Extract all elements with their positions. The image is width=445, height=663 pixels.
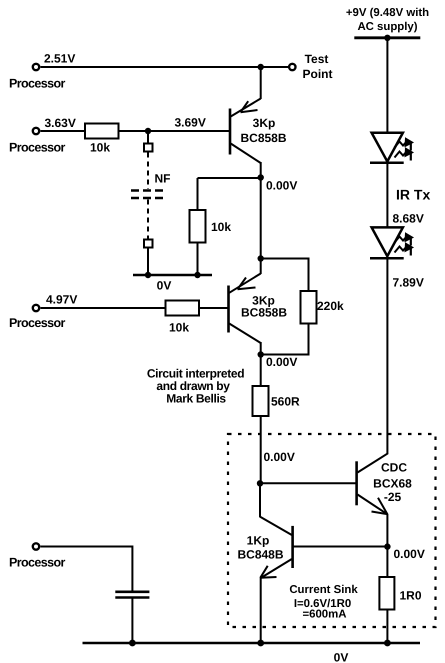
NF pad square (upper) [144,144,153,152]
svg-text:1Kp: 1Kp [247,534,270,548]
svg-text:7.89V: 7.89V [393,276,424,290]
terminal P1 Processor (2.51V input) [33,64,39,70]
LED D2 cathode bar [370,257,404,260]
wire R1 to Q1 base [119,130,230,132]
svg-text:+9V (9.48V with: +9V (9.48V with [346,7,429,19]
resistor R2 10k (vertical) [190,210,206,243]
node: C1 on 0V rail [129,640,136,647]
svg-text:2.51V: 2.51V [44,52,75,66]
node: Q2 emitter junction [258,255,264,261]
wire (dashed) capacitor NF to lower pad [147,200,149,240]
node: NF on 0V rail [145,272,151,278]
Q2 collector wire to node [260,342,262,355]
svg-text:BC848B: BC848B [237,548,283,562]
terminal: Test Point [289,64,295,70]
wire D2 to Q3 collector [386,258,388,454]
wire R3 to Q2 base [199,307,228,309]
wire lower pad to 0V rail [147,248,149,276]
svg-text:10k: 10k [169,321,189,335]
wire P3 to resistor R3 [41,307,166,309]
node: R2 on 0V rail [194,272,200,278]
node: 3.69V junction [145,128,151,134]
svg-text:BC858B: BC858B [241,306,287,320]
Q4 emitter diagonal [261,559,292,578]
svg-text:1R0: 1R0 [400,589,422,603]
node: BCX68 base / BC848B collector junction [257,480,263,486]
terminal P2 Processor (3.63V input) [33,128,39,134]
svg-text:8.68V: 8.68V [393,212,424,226]
svg-text:Processor: Processor [9,316,65,330]
LED D1 (IR) anode triangle [372,133,403,162]
Q1 collector diagonal [231,144,261,164]
svg-text:0.00V: 0.00V [394,547,425,561]
wire Q2 collector node to R5 [260,355,262,387]
Q1 PNP arrow (points toward base) [241,101,258,112]
wire Q2 emitter node to 220k top [261,259,309,292]
svg-text:3Kp: 3Kp [253,116,276,130]
node: +9V tap [384,35,390,41]
svg-text:NF: NF [155,172,171,186]
Q4 collector wire from node [259,483,261,517]
svg-text:-25: -25 [384,490,402,504]
svg-text:Processor: Processor [9,77,65,91]
transistor Q4 BC848B NPN (mirrored): base bar [291,526,294,568]
Q1 emitter diagonal [231,99,261,117]
Q2 emitter wire [260,259,262,275]
svg-text:Current Sink: Current Sink [289,584,358,596]
resistor R1 10k (horizontal) [85,124,119,139]
svg-text:Processor: Processor [9,556,65,570]
wire P2 to resistor R1 [41,130,86,132]
svg-text:3.63V: 3.63V [45,116,76,130]
Q4 collector diagonal [260,517,292,536]
node: R6 on 0V rail [384,640,391,647]
svg-text:BCX68: BCX68 [373,477,412,491]
resistor R3 10k (horizontal) [166,301,200,316]
Q1 collector wire to node [260,162,262,178]
node: Q2 collector 0.00V [258,351,264,357]
wire Q1 node down to Q2 emitter node [260,178,262,259]
terminal P4 Processor (bottom) [33,543,39,549]
LED D1 emission arrow 2 [395,151,408,158]
wire C1 to 0V rail [131,599,133,644]
svg-text:AC supply): AC supply) [357,21,417,33]
wire sense node to R6 [386,547,388,577]
LED D2 emission arrow 1 [395,236,408,243]
Q2 emitter diagonal [229,274,261,293]
wire R6 to 0V rail [386,610,388,644]
svg-text:220k: 220k [317,299,344,313]
resistor R6 1R0 [379,577,394,610]
wire D1 to D2 [386,163,388,228]
resistor R5 560R [253,386,269,416]
svg-text:560R: 560R [271,395,300,409]
resistor R4 220k [301,291,317,324]
svg-text:IR Tx: IR Tx [396,187,430,203]
Q1 emitter wire from test point node [260,67,262,99]
LED D2 emission arrow 2 [395,246,408,253]
transistor Q1 BC858B PNP: base bar [229,109,232,155]
svg-text:0.00V: 0.00V [266,179,297,193]
wire +9V to LED D1 [386,38,388,133]
svg-text:CDC: CDC [381,461,407,475]
Q2 collector diagonal [229,324,261,344]
svg-text:Mark Bellis: Mark Bellis [166,392,226,406]
svg-text:0.00V: 0.00V [266,355,297,369]
svg-text:0.00V: 0.00V [264,450,295,464]
Q3 NPN arrow (points away from base) [372,498,388,514]
Q4 base wire from sense node [293,546,388,548]
0V local rail [133,274,212,276]
LED D2 (IR) anode triangle [372,227,403,256]
Q3 collector diagonal [358,453,388,472]
Q4 NPN arrow (points away from base) [260,566,276,578]
svg-text:0V: 0V [334,651,349,663]
capacitor NF (dashed, not fitted) [131,189,165,192]
NF pad square (lower) [144,240,153,248]
dashed box: current sink block [228,434,436,627]
wire node to R2 top [198,177,261,179]
LED D1 emission arrow 1 [395,141,408,148]
Q2 PNP arrow (points toward base) [238,278,256,290]
svg-text:10k: 10k [211,220,231,234]
svg-text:10k: 10k [90,141,110,155]
Q3 emitter diagonal [358,495,388,515]
wire (dashed) pad to capacitor NF [147,153,149,190]
wire node to Q3 base [260,482,356,484]
transistor Q2 BC858B PNP: base bar [227,286,230,333]
svg-text:0V: 0V [157,279,172,293]
Q4 emitter wire to 0V rail [260,578,262,644]
svg-text:=600mA: =600mA [302,609,346,621]
node: Q4 emitter on 0V rail [257,640,264,647]
node: Q1 collector 0.00V [258,174,264,180]
wire R2 bottom to 0V rail [197,243,199,276]
svg-text:3.69V: 3.69V [175,116,206,130]
transistor Q3 BCX68 NPN: base bar [355,461,358,505]
wire R5 to current-sink node [260,416,262,483]
svg-text:BC858B: BC858B [240,131,286,145]
capacitor C1 [115,590,149,593]
power rail +9V [354,36,420,39]
svg-text:Point: Point [303,67,333,81]
terminal P3 Processor (4.97V input) [33,305,39,311]
Q3 emitter wire to 0.00V node [386,514,388,547]
svg-text:Test: Test [305,52,329,66]
node: Q3 emitter / R6 top / Q4 base [384,543,390,549]
wire P1 to test point [41,66,290,68]
NF branch: stub wire from node [147,131,149,144]
wire P4 to capacitor C1 [41,547,133,591]
0V rail (bottom) [83,642,421,644]
svg-text:Processor: Processor [9,141,65,155]
wire 220k bottom to Q2 collector node [261,324,309,355]
node: test point tap junction [258,64,264,70]
svg-text:4.97V: 4.97V [46,293,77,307]
LED D1 cathode bar [370,162,404,165]
